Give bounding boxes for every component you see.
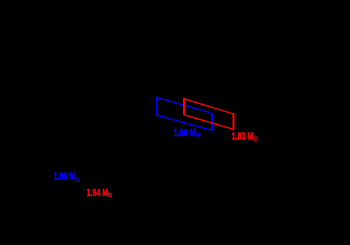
label 1.59 Msun (blue) — [173, 128, 200, 139]
svg-text:1.96 M: 1.96 M — [54, 172, 75, 183]
blue box right edge — [211, 113, 213, 130]
label 1.94 Msun (red) — [87, 188, 112, 199]
red box left edge — [183, 98, 185, 115]
red box right edge — [233, 114, 234, 130]
svg-text:1.94 M: 1.94 M — [87, 188, 109, 199]
blue error box (parallelogram) — [157, 97, 212, 130]
blue box left edge — [156, 97, 158, 116]
label 1.96 Msun (blue) — [54, 172, 80, 183]
label 1.83 Msun (red) — [232, 132, 257, 143]
svg-text:1.59 M: 1.59 M — [173, 128, 196, 139]
svg-text:1.83 M: 1.83 M — [232, 132, 253, 143]
red error box (parallelogram) — [184, 99, 233, 129]
